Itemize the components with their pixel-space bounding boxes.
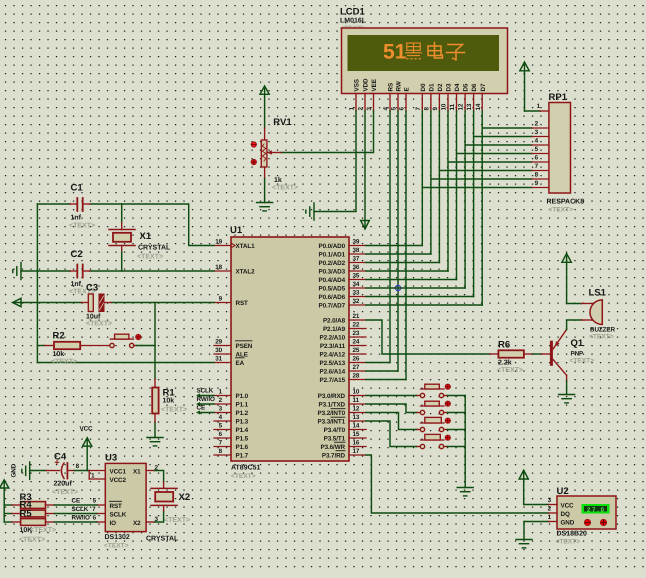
resistor R4 [4,500,97,517]
power terminal (up arrow) above buzzer [562,254,571,304]
svg-text:29: 29 [215,339,222,346]
svg-text:8: 8 [76,463,80,470]
svg-text:P3.2/INT0: P3.2/INT0 [318,410,346,417]
ground under U2 [516,540,532,548]
wire VSS column to ground [314,111,356,212]
U1 XTAL1 clock marker [231,243,235,248]
net tag RW/IO on P1.1 [196,396,215,406]
wire EA row [37,362,214,364]
svg-text:SCLK: SCLK [72,506,89,513]
svg-text:P0.4/AD4: P0.4/AD4 [319,277,346,284]
svg-text:4: 4 [383,107,390,111]
svg-text:IO: IO [110,520,117,527]
svg-text:P0.1/AD1: P0.1/AD1 [319,252,346,259]
wire P2.6 to RW [366,370,398,372]
svg-text:51: 51 [383,41,407,64]
U1 left pin numbers [215,239,222,456]
wire U2 GND to ground [524,522,549,540]
U2 adjust buttons (red) [584,519,606,525]
wire P3.1 to button 2 [366,404,417,413]
svg-text:22: 22 [353,322,360,329]
svg-text:P2.2/A10: P2.2/A10 [320,335,346,342]
svg-text:RV1: RV1 [273,117,292,128]
svg-text:1nf: 1nf [71,214,82,222]
svg-text:4: 4 [219,414,223,421]
svg-text:VCC2: VCC2 [110,477,127,484]
wires D0-D7 columns down to U1 P0 rows [422,111,482,305]
svg-text:P3.5/T1: P3.5/T1 [324,436,346,443]
svg-text:CE: CE [72,498,81,505]
svg-text:1: 1 [91,473,95,480]
svg-text:VSS: VSS [354,79,361,91]
wires P0.0-P0.7 to data columns [366,246,482,306]
svg-text:P3.1/TXD: P3.1/TXD [319,402,346,409]
LCD LCD1 LM016L [340,7,508,94]
wire C1 row [37,204,214,246]
U1 right pin numbers [353,239,360,456]
resistor R1 10k [152,379,187,422]
ground under buttons [457,488,473,496]
svg-text:P1.5: P1.5 [236,436,249,443]
svg-text:25: 25 [353,347,360,354]
svg-text:2: 2 [548,506,552,513]
node marker (blue) on RW column [395,285,400,290]
svg-text:35: 35 [353,273,360,280]
svg-text:U3: U3 [105,453,117,464]
svg-text:D2: D2 [437,83,444,91]
net labels CE/SCLK/RW-IO at U3 [72,498,90,522]
capacitor C3 10uf (electrolytic) [86,283,112,328]
U3 left pin stubs (RST/SCLK/IO) [97,505,106,522]
rtc U3 DS1302 [104,453,146,550]
svg-text:11: 11 [449,103,456,110]
svg-text:P3.4/T0: P3.4/T0 [324,427,346,434]
svg-text:37: 37 [353,256,360,263]
svg-text:C4: C4 [54,452,67,463]
capacitor C2 1nf [69,249,95,296]
svg-text:<TEXT>: <TEXT> [556,539,581,546]
svg-text:P2.6/A14: P2.6/A14 [320,369,346,376]
LCD screen text 黑 [406,43,421,59]
svg-text:CRYSTAL: CRYSTAL [146,536,179,543]
svg-text:1: 1 [548,514,552,521]
svg-text:<TEXT>: <TEXT> [52,489,78,496]
svg-text:9: 9 [432,107,439,111]
svg-text:<TEXT>: <TEXT> [164,517,190,524]
svg-text:RW: RW [396,81,403,91]
svg-text:C2: C2 [71,249,83,260]
svg-text:11: 11 [353,397,360,404]
svg-text:23: 23 [353,330,360,337]
power terminal (up arrow) feeding RP1 pin 1 [520,62,540,111]
wires D columns to RP1 pins 2-9 [422,128,532,188]
svg-text:220uf: 220uf [54,480,73,488]
ground under Q1 [559,395,575,403]
svg-text:7: 7 [415,107,422,111]
resistor R6 2.2k [490,340,542,375]
svg-text:2: 2 [219,397,223,404]
svg-text:39: 39 [353,239,360,246]
svg-text:10uf: 10uf [86,313,101,321]
svg-text:P3.3/INT1: P3.3/INT1 [318,419,346,426]
capacitor C4 220uf (electrolytic) [52,452,78,497]
svg-text:<TEXT>: <TEXT> [86,321,112,328]
svg-text:P0.5/AD5: P0.5/AD5 [319,286,346,293]
svg-text:P1.7: P1.7 [236,453,249,460]
svg-text:RS: RS [388,83,395,92]
U2 pin numbers [548,497,552,521]
wire RST row [15,302,215,304]
resistor R5 [4,509,97,544]
svg-text:D0: D0 [420,83,427,91]
svg-text:28: 28 [353,373,360,380]
svg-text:2: 2 [358,107,365,111]
wire C2 row [21,270,214,272]
svg-text:34: 34 [353,281,360,288]
potentiometer RV1 1k [251,86,298,203]
svg-text:<TEXT>: <TEXT> [231,473,256,480]
svg-text:5: 5 [219,423,223,430]
svg-text:P1.6: P1.6 [236,444,249,451]
push button 2 [417,401,450,415]
svg-text:RST: RST [236,300,249,307]
svg-text:P1.4: P1.4 [236,427,249,434]
wire P3.2 to button 3 [366,413,417,430]
power terminal VCC arrow [83,438,92,471]
svg-text:P1.2: P1.2 [236,410,249,417]
svg-text:CE: CE [197,405,206,412]
power terminal (left arrow) on RST net [13,298,22,306]
svg-text:XTAL1: XTAL1 [236,243,256,250]
svg-text:<TEXT>: <TEXT> [272,185,298,192]
svg-text:PSEN: PSEN [236,343,253,350]
RP1 pin numbers [535,103,541,187]
svg-text:DQ: DQ [561,511,570,518]
svg-text:P2.5/A13: P2.5/A13 [320,360,346,367]
svg-text:5: 5 [93,498,97,505]
svg-text:VCC: VCC [561,503,575,510]
svg-text:18: 18 [215,264,222,271]
svg-text:D4: D4 [454,83,461,91]
svg-text:RESPACK8: RESPACK8 [547,199,585,206]
svg-text:DS18B20: DS18B20 [557,531,587,538]
svg-text:E: E [404,87,411,91]
microcontroller U1 AT89C51 [230,225,349,480]
svg-text:7: 7 [219,440,223,447]
svg-text:5: 5 [391,107,398,111]
svg-text:6: 6 [93,515,97,522]
respack RP1 RESPACK-8 [547,92,585,214]
svg-text:15: 15 [353,431,360,438]
svg-text:SCLK: SCLK [110,512,127,519]
RP1 pin stubs [532,111,549,188]
wire R1 column [154,303,156,438]
wire C4 to U3 VCC1 [67,470,74,472]
svg-text:38: 38 [353,247,360,254]
svg-text:VDD: VDD [363,78,370,92]
svg-text:D7: D7 [480,83,487,91]
wire VEE column to RV1 wiper [281,111,374,153]
svg-text:LCD1: LCD1 [340,7,366,18]
svg-text:RW/IO: RW/IO [72,515,90,522]
svg-text:3: 3 [548,497,552,504]
svg-text:6: 6 [399,107,406,111]
svg-text:<TEXT>: <TEXT> [30,527,56,534]
svg-text:X1: X1 [133,469,141,476]
svg-text:6: 6 [219,431,223,438]
svg-text:VEE: VEE [371,79,378,91]
LCD pin numbers 1-14 (rotated) [349,103,482,110]
ground under R1 [147,438,163,446]
svg-text:C3: C3 [86,283,98,294]
svg-text:3: 3 [535,129,539,136]
svg-text:1k: 1k [274,176,282,184]
svg-text:19: 19 [215,239,222,246]
U1 left pin stubs [214,246,231,456]
svg-text:RW/IO: RW/IO [197,396,215,403]
svg-text:10k: 10k [53,350,65,358]
svg-text:BUZZER: BUZZER [590,327,615,334]
svg-text:9: 9 [535,180,539,187]
svg-text:8: 8 [535,172,539,179]
LCD pin stubs [356,94,482,112]
svg-text:8: 8 [219,448,223,455]
U1 left pin names [236,243,256,460]
svg-text:12: 12 [458,103,465,110]
wire RW column [397,111,399,371]
svg-text:<TEXT>: <TEXT> [570,358,595,365]
svg-text:DS1302: DS1302 [105,534,130,541]
svg-text:XTAL2: XTAL2 [236,269,256,276]
svg-text:6: 6 [535,155,539,162]
svg-text:P3.7/RD: P3.7/RD [322,453,346,460]
temperature sensor U2 DS18B20 [556,486,617,546]
svg-text:27: 27 [353,364,360,371]
svg-text:PNP: PNP [571,351,584,358]
svg-text:R2: R2 [53,331,65,342]
svg-text:1: 1 [349,107,356,111]
svg-text:P1.1: P1.1 [236,402,249,409]
svg-text:12: 12 [353,406,360,413]
svg-text:<TEXT>: <TEXT> [69,223,95,230]
svg-text:1nf: 1nf [71,280,82,288]
crystal X2 [146,482,190,543]
svg-text:<TEXT>: <TEXT> [589,334,614,341]
svg-text:P2.4/A12: P2.4/A12 [320,352,346,359]
svg-text:<TEXT>: <TEXT> [137,254,163,261]
crystal X1 [109,204,171,271]
svg-text:31: 31 [215,356,222,363]
ground terminal GND (left-pointing, labelled) [11,462,30,479]
svg-text:SCLK: SCLK [197,388,214,395]
wire buzzer pin1 [567,303,582,305]
svg-text:CRYSTAL: CRYSTAL [138,245,171,252]
svg-text:10: 10 [441,103,448,110]
ground (left-pointing) on C1/C2 net [13,263,21,280]
U2 pin stubs [549,505,558,522]
svg-text:EA: EA [236,360,245,367]
svg-text:P0.3/AD3: P0.3/AD3 [319,269,346,276]
transistor Q1 PNP [541,330,594,395]
svg-text:<TEXT>: <TEXT> [497,367,523,374]
svg-text:P2.1/A9: P2.1/A9 [323,326,346,333]
svg-text:17: 17 [353,448,360,455]
svg-text:4: 4 [535,138,539,145]
svg-text:D6: D6 [471,83,478,91]
svg-text:5: 5 [535,146,539,153]
U2 display 27.0 [582,504,610,514]
svg-text:16: 16 [353,440,360,447]
wires buttons to common ground rail [448,396,466,488]
wire P3.0 to button 1 [366,395,417,397]
resistor R2 10k [37,331,109,366]
push button 1 [417,384,450,398]
svg-text:LS1: LS1 [589,288,607,299]
svg-text:LM016L: LM016L [340,18,367,25]
svg-text:R6: R6 [498,340,510,351]
ground under RV1 [257,203,273,211]
svg-text:P3.0/RXD: P3.0/RXD [318,393,346,400]
svg-text:24: 24 [353,339,360,346]
svg-text:<TEXT>: <TEXT> [161,407,187,414]
svg-text:<TEXT>: <TEXT> [19,537,45,544]
svg-text:GND: GND [11,463,18,477]
wire E column [405,111,407,380]
wire VDD column [364,111,366,221]
svg-text:21: 21 [353,313,360,320]
svg-text:7: 7 [535,163,539,170]
svg-text:7: 7 [92,506,96,513]
svg-text:D3: D3 [446,83,453,91]
U1 right pin names [318,243,346,460]
push button 3 [417,417,450,431]
U3 right pin stubs and crystal wires [146,471,155,523]
ground (left-pointing) on VSS net [306,203,314,220]
wire P3.3 to button 4 [366,421,417,447]
power terminal (down arrow) on VDD column [361,221,370,230]
svg-text:D1: D1 [429,83,436,91]
svg-text:13: 13 [466,103,473,110]
svg-text:32: 32 [353,298,360,305]
svg-text:Q1: Q1 [571,338,584,349]
svg-text:10: 10 [353,389,360,396]
capacitor C1 1nf [69,183,95,230]
svg-text:<TEXT>: <TEXT> [549,207,574,214]
svg-text:P2.7/A15: P2.7/A15 [320,377,346,384]
svg-text:10k: 10k [163,397,175,405]
wire VCC2 tie to VCC1 [89,471,105,480]
svg-text:VCC1: VCC1 [110,469,127,476]
wire P2.5 to RS [366,362,390,364]
svg-text:2: 2 [535,121,539,128]
svg-text:1: 1 [537,103,541,110]
svg-text:P0.7/AD7: P0.7/AD7 [319,303,346,310]
svg-text:VCC: VCC [80,426,94,433]
power terminal (up arrow) for pullup rail [0,480,9,522]
U3 pin numbers [76,463,97,522]
svg-text:P1.3: P1.3 [236,419,249,426]
svg-text:30: 30 [215,347,222,354]
svg-text:14: 14 [475,103,482,110]
svg-text:C1: C1 [71,183,84,194]
svg-text:9: 9 [219,296,223,303]
svg-text:RST: RST [110,503,123,510]
svg-text:P1.0: P1.0 [236,393,249,400]
wire left vertical rail (C1 to EA) [36,204,38,363]
buzzer LS1 [581,288,615,341]
svg-text:X1: X1 [140,231,152,242]
svg-text:P0.6/AD6: P0.6/AD6 [319,294,346,301]
resistor R3 [4,492,97,508]
svg-text:3: 3 [366,107,373,111]
LCD pin names VSS VDD VEE RS RW E D0-D7 (rotated) [354,78,487,92]
svg-text:P0.0/AD0: P0.0/AD0 [319,243,346,250]
svg-text:26: 26 [353,356,360,363]
svg-text:8: 8 [424,107,431,111]
svg-text:U1: U1 [230,225,243,236]
wire RS column [389,111,391,363]
wire GND to C4 [30,470,46,472]
svg-text:RP1: RP1 [549,92,568,103]
push button 4 [417,434,450,448]
wire P2.0 to R6 [366,320,490,354]
wire buzzer pin2 to Q1 emitter [567,320,582,330]
net tag SCLK on P1.0 [196,388,214,398]
svg-text:P2.0/A8: P2.0/A8 [323,318,346,325]
svg-text:2.2k: 2.2k [498,359,512,367]
svg-text:36: 36 [353,264,360,271]
svg-text:3: 3 [219,406,223,413]
LCD screen text 电 [428,43,443,59]
svg-text:13: 13 [353,414,360,421]
svg-text:GND: GND [561,520,575,527]
svg-text:X2: X2 [179,492,191,503]
svg-text:X2: X2 [133,520,141,527]
svg-text:<TEXT>: <TEXT> [104,543,129,550]
U1 right pin stubs [349,246,366,456]
svg-text:33: 33 [353,290,360,297]
svg-text:P2.3/A11: P2.3/A11 [320,343,346,350]
wire P3.7 to DS18B20 DQ [366,455,549,513]
svg-text:14: 14 [353,423,360,430]
power terminal (up arrow) above U2 [519,470,548,504]
wire P2.7 to E [366,379,406,381]
push button (reset) [110,334,155,347]
svg-text:D5: D5 [463,83,470,91]
LCD screen text 子 [447,45,465,60]
net tag CE on P1.2 [196,405,214,415]
svg-text:<TEXT>: <TEXT> [51,359,77,366]
svg-text:1: 1 [219,389,223,396]
svg-text:P0.2/AD2: P0.2/AD2 [319,260,346,267]
svg-text:AT89C51: AT89C51 [231,465,261,472]
svg-text:P3.6/WR: P3.6/WR [321,444,346,451]
